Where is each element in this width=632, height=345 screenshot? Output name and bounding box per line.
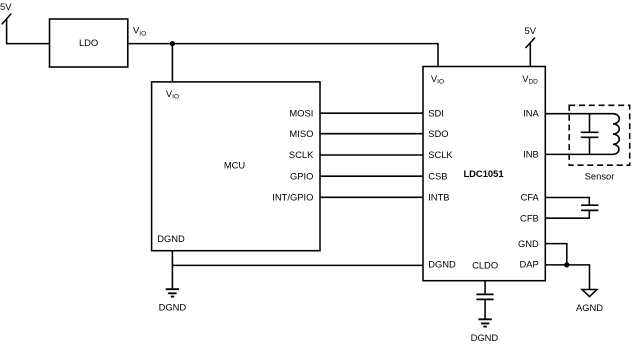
svg-text:VDD: VDD <box>522 73 538 86</box>
svg-text:SCLK: SCLK <box>428 149 453 160</box>
wire GND to DAP net <box>545 244 567 265</box>
ground DGND under CLDO <box>478 319 491 326</box>
svg-text:5V: 5V <box>525 25 537 36</box>
capacitor CLDO bypass <box>476 294 493 299</box>
svg-text:INTB: INTB <box>428 192 449 203</box>
wire VIO junction to MCU <box>171 44 173 82</box>
wire MCU DGND down <box>171 251 173 290</box>
svg-text:VIO: VIO <box>133 25 146 38</box>
power 5V right slash <box>526 38 536 48</box>
svg-text:CLDO: CLDO <box>472 260 498 271</box>
svg-text:LDC1051: LDC1051 <box>463 168 503 179</box>
svg-text:MISO: MISO <box>289 128 313 139</box>
sensor boundary dashed box <box>569 105 630 165</box>
svg-text:DAP: DAP <box>520 259 539 270</box>
svg-text:INA: INA <box>523 107 539 118</box>
ic LDC1051 <box>423 67 545 281</box>
capacitor CFA-CFB <box>581 205 598 210</box>
junction DAP-GND <box>564 262 569 267</box>
wire capacitor to CFB <box>545 210 589 218</box>
wire CLDO pin down <box>484 281 486 295</box>
wire MOSI to SDI <box>320 112 423 114</box>
wire DGND net to LDC1051 DGND pin <box>172 264 423 266</box>
capacitor sensor tank <box>589 114 591 155</box>
svg-text:SDI: SDI <box>428 107 444 118</box>
svg-text:VIO: VIO <box>431 73 444 86</box>
svg-text:GND: GND <box>518 238 539 249</box>
wire SCLK to SCLK <box>320 154 423 156</box>
power 5V left slash <box>2 14 12 25</box>
svg-text:DGND: DGND <box>428 259 456 270</box>
svg-text:AGND: AGND <box>576 302 603 313</box>
wire capacitor to DGND ground <box>484 299 486 319</box>
wire VIO rail from LDO to LDC1051 VIO pin <box>128 44 438 67</box>
wire INT/GPIO to INTB <box>320 196 423 198</box>
svg-text:CFA: CFA <box>521 192 540 203</box>
svg-text:DGND: DGND <box>159 302 187 313</box>
wire DAP to AGND <box>545 265 589 290</box>
svg-text:5V: 5V <box>0 1 12 12</box>
inductor sensor coil <box>613 114 619 155</box>
svg-text:CSB: CSB <box>428 170 447 181</box>
svg-text:SDO: SDO <box>428 128 448 139</box>
svg-text:CFB: CFB <box>520 212 539 223</box>
svg-text:VIO: VIO <box>166 88 179 101</box>
wire MISO to SDO <box>320 133 423 135</box>
svg-text:MCU: MCU <box>224 160 246 171</box>
junction VIO rail <box>170 41 175 46</box>
block MCU <box>152 82 320 251</box>
svg-text:GPIO: GPIO <box>290 170 313 181</box>
svg-text:SCLK: SCLK <box>289 149 314 160</box>
wire INB to sensor <box>545 153 613 155</box>
regulator LDO <box>50 19 128 67</box>
wire CFA to capacitor <box>545 198 589 206</box>
svg-text:Sensor: Sensor <box>585 170 615 181</box>
svg-text:INB: INB <box>523 149 539 160</box>
wire 5V to VDD pin <box>529 43 531 67</box>
svg-text:LDO: LDO <box>79 37 98 48</box>
wire 5V to LDO input <box>7 19 50 44</box>
wire INA to sensor <box>545 113 613 115</box>
svg-text:DGND: DGND <box>471 332 499 343</box>
wire GPIO to CSB <box>320 175 423 177</box>
ground AGND triangle <box>582 290 597 297</box>
svg-text:INT/GPIO: INT/GPIO <box>272 192 313 203</box>
svg-text:DGND: DGND <box>157 233 185 244</box>
svg-text:MOSI: MOSI <box>289 107 313 118</box>
ground DGND under MCU <box>166 289 179 296</box>
